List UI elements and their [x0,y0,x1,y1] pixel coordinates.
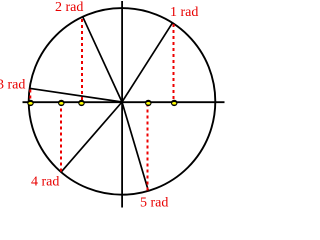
marker cos(5) [145,100,152,106]
ray to 4 rad [61,102,122,172]
svg-text:3 rad: 3 rad [0,78,25,93]
ray to 1 rad [122,23,173,102]
dashed projection 4 rad [60,104,62,172]
marker cos(2) [78,100,85,106]
dashed projection 3 rad [29,90,31,102]
y-axis [121,1,123,208]
svg-text:5 rad: 5 rad [140,196,168,211]
ray to 2 rad [83,17,122,102]
marker cos(3) [27,100,34,106]
dashed projection 5 rad [147,104,149,191]
ray to 5 rad [122,102,149,191]
svg-text:2 rad: 2 rad [55,0,83,15]
dashed projection 2 rad [81,19,83,102]
ray to 3 rad [29,88,122,102]
svg-text:4 rad: 4 rad [31,175,59,190]
dashed projection 1 rad [173,24,175,102]
unit circle [29,8,216,195]
svg-text:1 rad: 1 rad [170,5,198,20]
marker cos(1) [171,100,178,106]
marker cos(4) [58,100,65,106]
x-axis [23,101,225,103]
